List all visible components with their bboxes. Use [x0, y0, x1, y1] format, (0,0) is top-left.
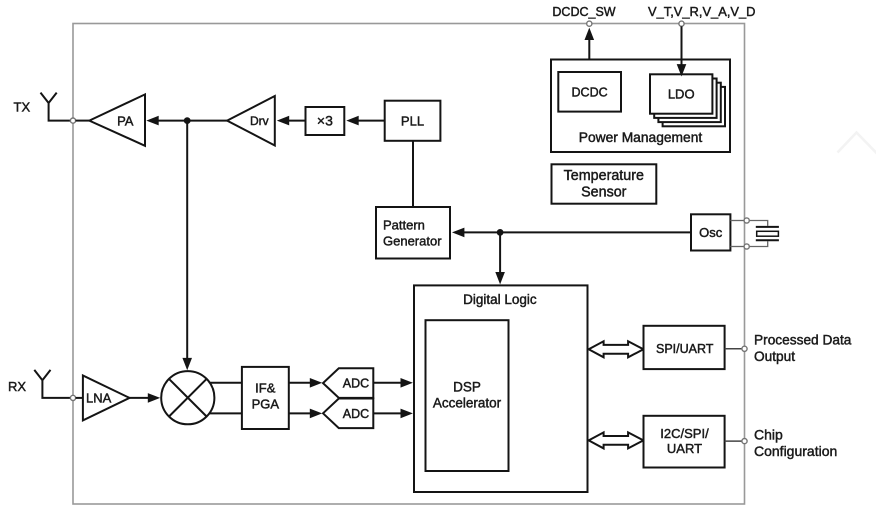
svg-text:LNA: LNA [86, 390, 112, 405]
svg-text:SPI/UART: SPI/UART [656, 342, 714, 356]
svg-text:Processed Data: Processed Data [754, 332, 852, 347]
svg-text:DCDC_SW: DCDC_SW [552, 5, 615, 19]
svg-text:Drv: Drv [250, 114, 269, 128]
svg-text:LDO: LDO [668, 87, 695, 102]
svg-text:ADC: ADC [343, 377, 369, 391]
svg-text:Accelerator: Accelerator [433, 396, 502, 411]
svg-text:Output: Output [754, 349, 795, 364]
svg-text:PLL: PLL [401, 113, 424, 128]
svg-text:Osc: Osc [699, 225, 723, 240]
svg-text:UART: UART [667, 441, 702, 456]
svg-text:Temperature: Temperature [564, 168, 644, 184]
svg-text:Chip: Chip [754, 427, 783, 443]
svg-text:PA: PA [117, 113, 134, 128]
svg-text:Configuration: Configuration [754, 443, 837, 459]
svg-text:PGA: PGA [252, 397, 280, 412]
svg-text:RX: RX [8, 379, 26, 394]
svg-text:ADC: ADC [343, 407, 369, 421]
svg-text:DCDC: DCDC [572, 86, 608, 100]
svg-text:Power Management: Power Management [579, 130, 703, 145]
svg-text:Digital Logic: Digital Logic [463, 292, 537, 307]
svg-text:V_T,V_R,V_A,V_D: V_T,V_R,V_A,V_D [648, 4, 755, 19]
svg-text:I2C/SPI/: I2C/SPI/ [660, 426, 709, 441]
svg-text:×3: ×3 [317, 112, 333, 128]
svg-text:Pattern: Pattern [383, 218, 425, 233]
svg-text:Generator: Generator [383, 233, 442, 248]
svg-text:DSP: DSP [453, 380, 481, 395]
svg-text:TX: TX [14, 100, 31, 115]
svg-text:Sensor: Sensor [581, 184, 627, 200]
svg-text:IF&: IF& [255, 381, 276, 396]
